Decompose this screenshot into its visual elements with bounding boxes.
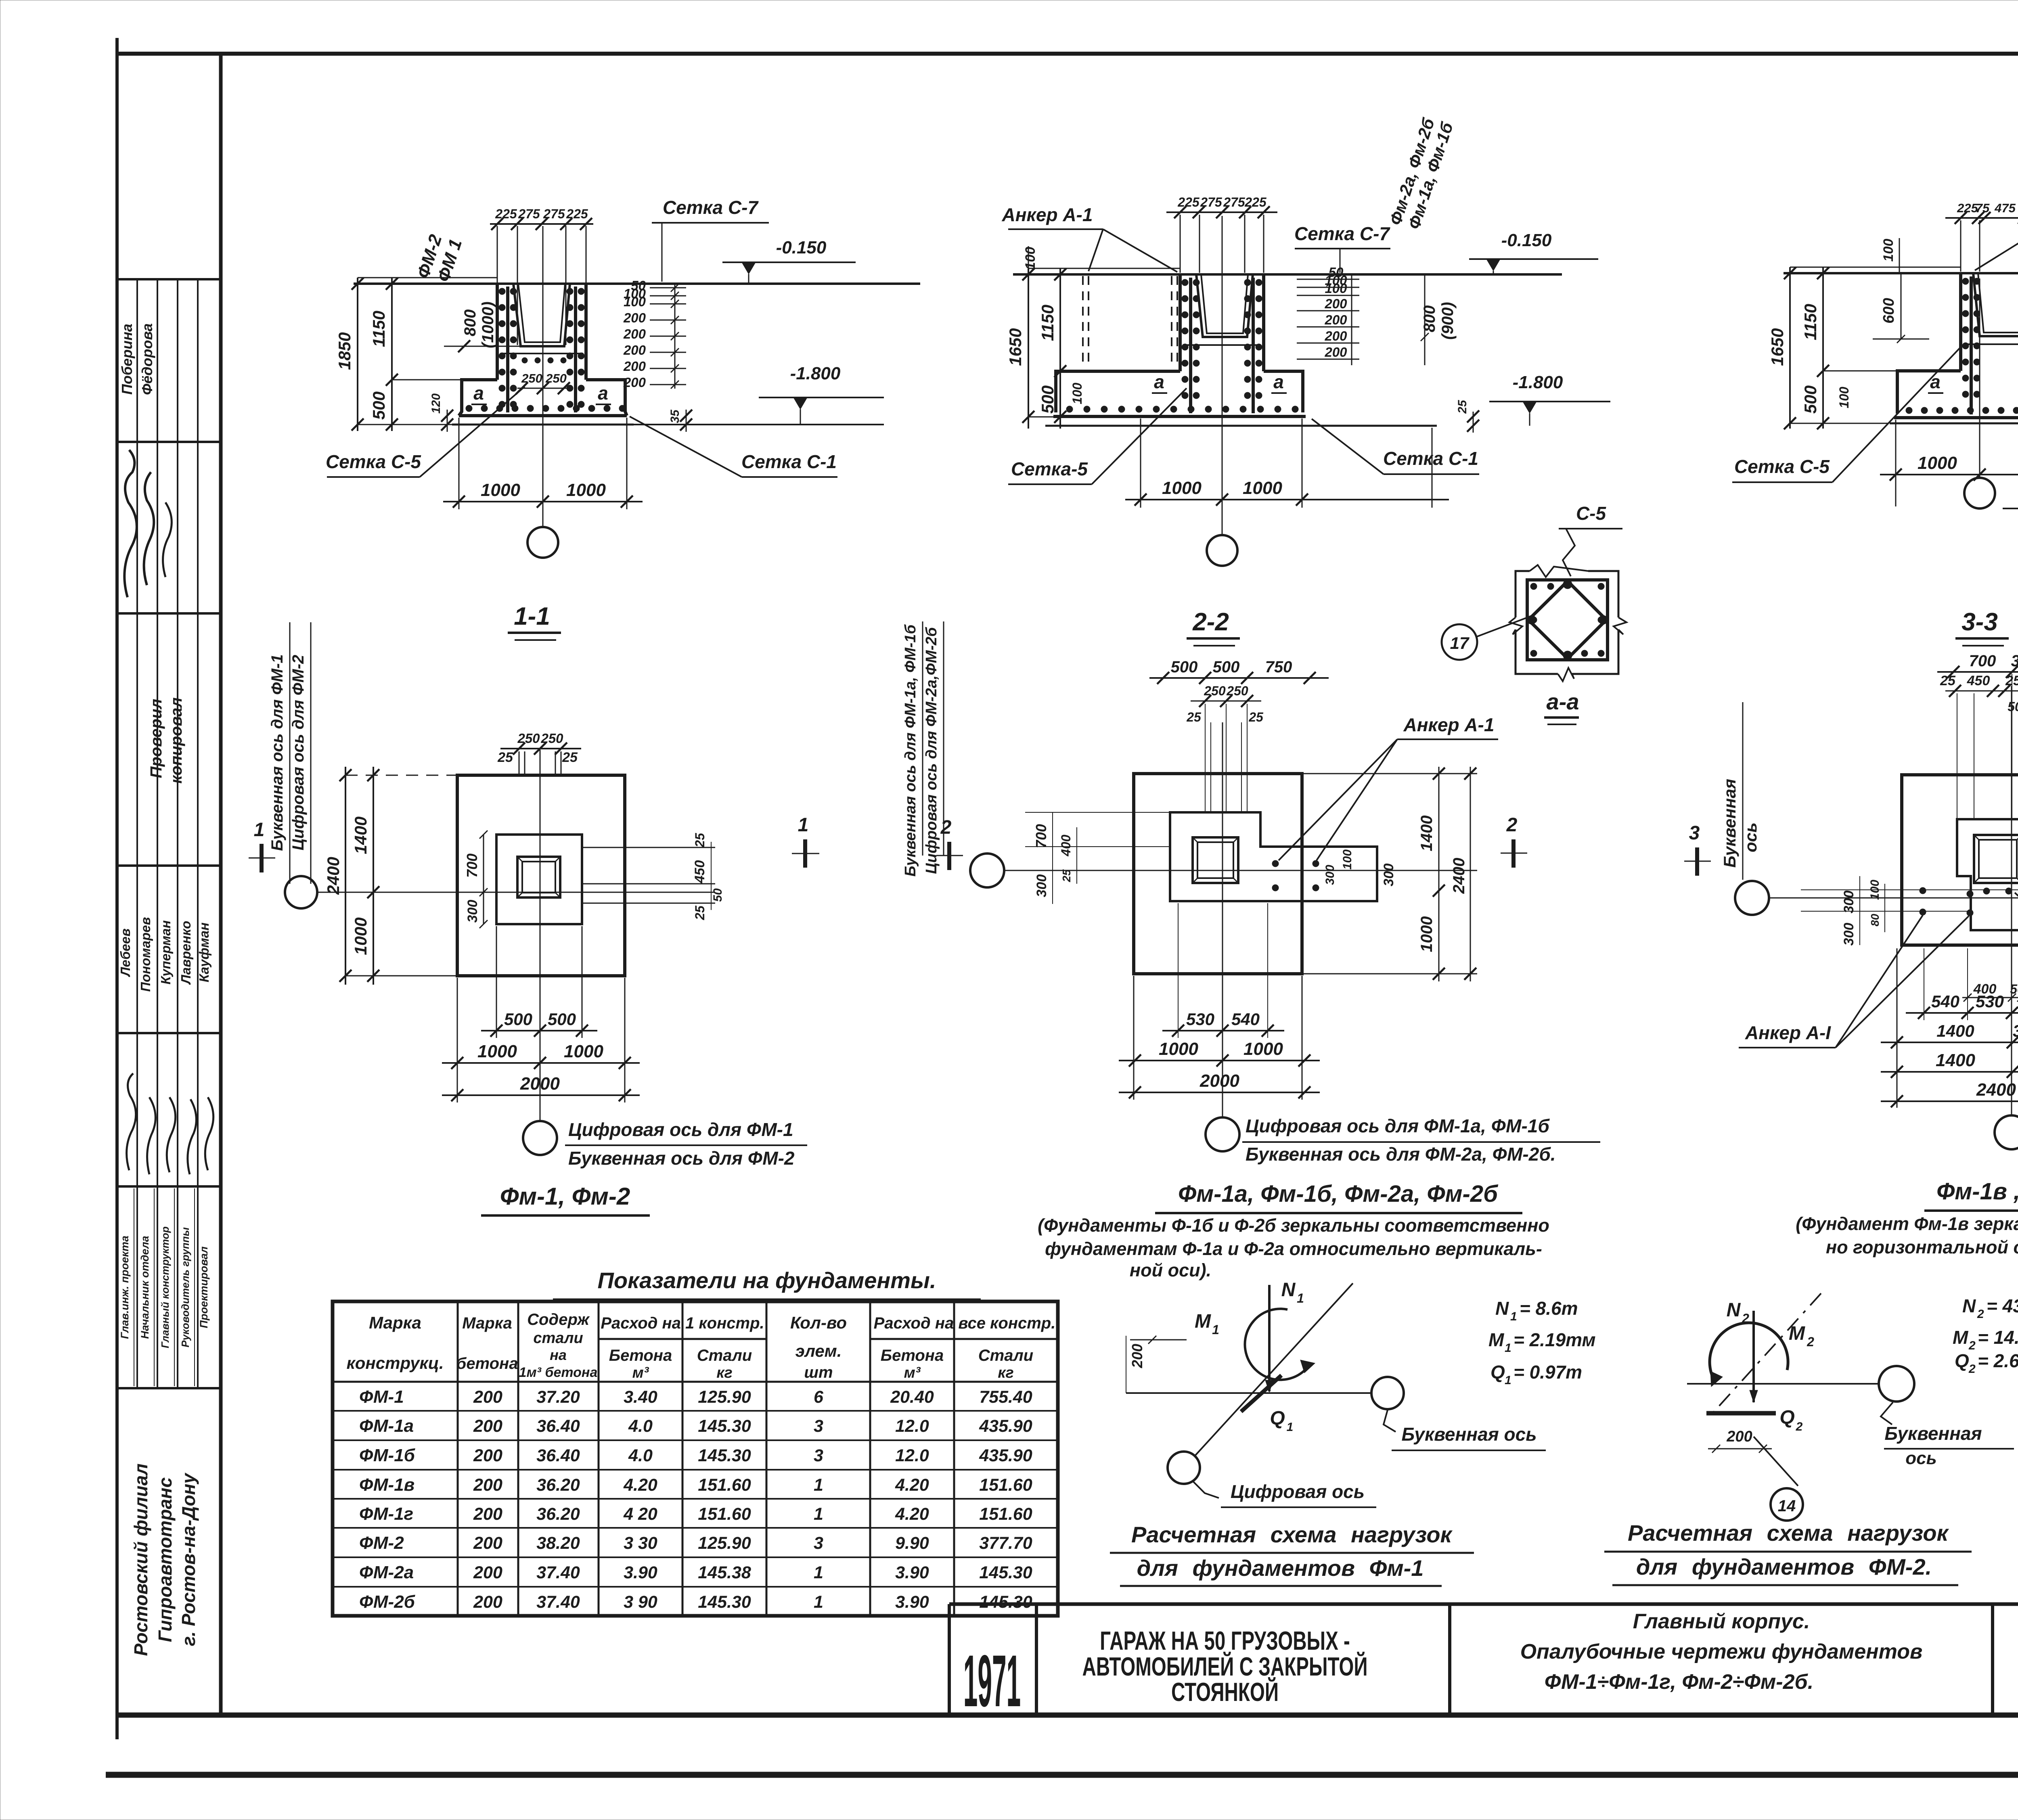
svg-text:100: 100 — [1023, 247, 1038, 270]
svg-text:4.20: 4.20 — [895, 1504, 929, 1524]
svg-text:3: 3 — [1689, 822, 1700, 844]
svg-text:N: N — [1281, 1279, 1296, 1301]
svg-text:540: 540 — [1931, 992, 1959, 1011]
svg-text:1000: 1000 — [566, 480, 606, 500]
svg-text:для фундаментов Фм-1: для фундаментов Фм-1 — [1137, 1555, 1424, 1581]
svg-text:300: 300 — [1323, 865, 1337, 885]
left height dimension chain 1650/1150/500 3-3 — [1789, 267, 1791, 429]
detail title a-a — [1544, 689, 1579, 724]
svg-text:N: N — [1495, 1298, 1509, 1319]
column socket double square FM-1v — [1974, 835, 2018, 883]
plan note FM-1a group — [1038, 1215, 1549, 1280]
svg-text:200: 200 — [473, 1475, 502, 1495]
svg-text:Анкер А-1: Анкер А-1 — [1002, 204, 1093, 225]
force N2 arrow and label — [1752, 1311, 1755, 1402]
table grid — [333, 1301, 1058, 1616]
svg-text:СТОЯНКОЙ: СТОЯНКОЙ — [1171, 1677, 1279, 1707]
svg-text:ГАРАЖ НА 50 ГРУЗОВЫХ -: ГАРАЖ НА 50 ГРУЗОВЫХ - — [1100, 1626, 1350, 1656]
svg-text:700: 700 — [464, 854, 480, 878]
svg-text:М: М — [1953, 1327, 1969, 1348]
svg-text:Сетка С-5: Сетка С-5 — [1734, 456, 1830, 477]
svg-text:ФМ-1: ФМ-1 — [359, 1387, 404, 1407]
svg-text:700: 700 — [1969, 652, 1996, 670]
svg-text:435.90: 435.90 — [979, 1416, 1032, 1436]
svg-text:1: 1 — [1297, 1291, 1304, 1305]
svg-text:Сетка С-1: Сетка С-1 — [741, 451, 837, 472]
vertical axis circle and label Tsifrovaya os 3-3 — [1979, 278, 1980, 478]
svg-text:4.20: 4.20 — [895, 1475, 929, 1495]
svg-text:Q: Q — [1955, 1350, 1969, 1371]
pedestal and socket outline 2-2 — [1179, 274, 1182, 371]
svg-text:500: 500 — [1213, 658, 1240, 676]
mesh spacing ladder 50..200 2-2 — [1297, 279, 1359, 280]
svg-text:копировал: копировал — [167, 697, 185, 784]
svg-text:25: 25 — [497, 750, 513, 765]
column socket double square FM-1a — [1193, 837, 1238, 883]
svg-text:Поберина: Поберина — [119, 324, 135, 395]
svg-text:1: 1 — [1510, 1310, 1517, 1323]
load scheme FM-2 values — [1953, 1295, 2018, 1376]
stamp signatures upper — [124, 450, 172, 597]
svg-text:1000: 1000 — [1418, 916, 1436, 952]
svg-text:36.20: 36.20 — [536, 1504, 580, 1524]
svg-text:Цифровая ось: Цифровая ось — [1231, 1481, 1365, 1502]
svg-text:200: 200 — [623, 359, 646, 374]
top dims 500/500/750 FM-1a — [1149, 677, 1329, 679]
svg-text:600: 600 — [1880, 298, 1897, 323]
svg-text:200: 200 — [473, 1446, 502, 1465]
svg-text:1000: 1000 — [1159, 1039, 1198, 1059]
stamp names Poberina/Fyodorova — [119, 323, 155, 395]
svg-text:2000: 2000 — [1199, 1071, 1239, 1091]
stamp label Proveril/Kopiroval — [147, 697, 185, 784]
svg-text:1000: 1000 — [481, 480, 520, 500]
svg-text:100: 100 — [1341, 849, 1354, 870]
svg-text:145.30: 145.30 — [979, 1563, 1032, 1582]
svg-text:(900): (900) — [1439, 302, 1457, 339]
svg-text:500: 500 — [1801, 385, 1820, 414]
svg-text:300: 300 — [1841, 891, 1857, 914]
svg-text:ной оси).: ной оси). — [1130, 1260, 1211, 1280]
svg-text:М: М — [1488, 1329, 1505, 1350]
svg-text:а: а — [1154, 371, 1164, 392]
L-shaped pedestal with console FM-1a — [1170, 812, 1377, 901]
svg-text:а: а — [598, 383, 608, 404]
svg-text:300: 300 — [1034, 874, 1049, 897]
svg-text:Фёдорова: Фёдорова — [139, 323, 155, 395]
svg-text:Сетка С-1: Сетка С-1 — [1383, 448, 1478, 469]
svg-text:шт: шт — [804, 1364, 833, 1381]
load scheme FM-1 diagram — [1126, 1279, 1546, 1507]
svg-text:Главный конструктор: Главный конструктор — [159, 1226, 171, 1348]
svg-text:25: 25 — [693, 905, 707, 920]
svg-text:Содерж: Содерж — [527, 1311, 590, 1328]
svg-text:25: 25 — [1060, 869, 1073, 883]
svg-text:Цифровая ось для ФМ-2а,ФМ-2б: Цифровая ось для ФМ-2а,ФМ-2б — [923, 627, 940, 874]
svg-text:Q: Q — [1779, 1407, 1794, 1428]
svg-text:1: 1 — [1505, 1374, 1511, 1387]
axis lines and grid circles FM-1v — [1769, 897, 2018, 899]
svg-text:250: 250 — [517, 731, 540, 746]
svg-text:ФМ-2а: ФМ-2а — [359, 1563, 414, 1582]
svg-text:(Фундамент Фм-1в зеркален Ф: (Фундамент Фм-1в зеркален Фм-1г относите… — [1796, 1213, 2018, 1234]
svg-text:200: 200 — [473, 1504, 502, 1524]
svg-text:750: 750 — [1265, 658, 1292, 676]
svg-text:200: 200 — [1324, 312, 1347, 327]
table title — [553, 1268, 981, 1299]
svg-text:755.40: 755.40 — [979, 1387, 1032, 1407]
svg-text:(Фундаменты Ф-1б и Ф-2б зе: (Фундаменты Ф-1б и Ф-2б зеркальны соотве… — [1038, 1215, 1549, 1236]
svg-text:151.60: 151.60 — [979, 1504, 1032, 1524]
svg-text:3.40: 3.40 — [624, 1387, 657, 1407]
section title 3-3 — [1955, 608, 2009, 646]
table data rows — [359, 1387, 1032, 1612]
svg-text:Сетка С-7: Сетка С-7 — [663, 197, 759, 218]
svg-text:3-3: 3-3 — [1961, 608, 1998, 636]
svg-text:225: 225 — [495, 207, 517, 221]
svg-text:Анкер А-I: Анкер А-I — [1745, 1022, 1831, 1043]
stamp job titles — [119, 1188, 210, 1386]
svg-text:100: 100 — [1881, 239, 1896, 262]
svg-text:= 2.67т: = 2.67т — [1978, 1350, 2018, 1371]
svg-text:200: 200 — [1726, 1428, 1752, 1445]
vertical axis and grid circle 1-1 — [542, 226, 544, 527]
svg-text:1650: 1650 — [1768, 328, 1787, 366]
svg-text:500: 500 — [369, 391, 388, 420]
svg-text:Буквенная ось: Буквенная ось — [1401, 1424, 1537, 1445]
svg-text:бетона: бетона — [456, 1355, 518, 1372]
svg-text:80: 80 — [1869, 914, 1881, 927]
svg-text:300: 300 — [1381, 864, 1396, 887]
svg-text:1000: 1000 — [1243, 478, 1282, 498]
svg-text:4 20: 4 20 — [623, 1504, 657, 1524]
load scheme FM-2 diagram — [1687, 1293, 2014, 1521]
svg-text:ФМ-1÷Фм-1г, Фм-2÷Фм-2б.: ФМ-1÷Фм-1г, Фм-2÷Фм-2б. — [1545, 1670, 1813, 1694]
axis lines and grid circles FM-1 — [317, 892, 715, 893]
svg-text:1150: 1150 — [1038, 305, 1057, 341]
svg-text:530: 530 — [1186, 1010, 1214, 1029]
vertical axis and grid circle 2-2 — [1222, 216, 1223, 535]
pedestal stem outline 1-1 — [496, 284, 499, 380]
svg-text:200: 200 — [623, 310, 646, 325]
footing plan outline FM-1a — [1134, 774, 1302, 974]
svg-text:(1000): (1000) — [479, 301, 497, 348]
right dimension chain 1400/2400/1000 FM-1a — [1438, 767, 1440, 981]
svg-text:3 90: 3 90 — [624, 1592, 657, 1612]
svg-text:1000: 1000 — [351, 917, 370, 955]
svg-text:151.60: 151.60 — [698, 1475, 751, 1495]
svg-text:2: 2 — [1968, 1362, 1976, 1376]
svg-text:225: 225 — [566, 207, 588, 221]
left height dimension chain 1850/1150/500 — [357, 278, 358, 431]
svg-text:ФМ-2б: ФМ-2б — [359, 1592, 416, 1612]
axis label of load scheme FM-2 — [1881, 1402, 1893, 1425]
svg-text:4.20: 4.20 — [623, 1475, 657, 1495]
svg-text:1000: 1000 — [1162, 478, 1202, 498]
svg-text:6: 6 — [814, 1387, 824, 1407]
svg-text:-0.150: -0.150 — [776, 238, 827, 257]
svg-text:фундаментам Ф-1а и Ф-2а отн: фундаментам Ф-1а и Ф-2а относительно вер… — [1045, 1238, 1542, 1259]
svg-text:151.60: 151.60 — [698, 1504, 751, 1524]
svg-text:Руководитель группы: Руководитель группы — [179, 1227, 191, 1347]
svg-text:20.40: 20.40 — [890, 1387, 934, 1407]
bottom dimension 1000+1000 1-1 — [458, 418, 460, 509]
svg-text:700: 700 — [1033, 824, 1049, 848]
axis lines of load scheme FM-1 — [1195, 1283, 1353, 1455]
svg-text:а-а: а-а — [1547, 689, 1579, 714]
svg-text:4.0: 4.0 — [628, 1416, 653, 1436]
svg-text:25: 25 — [693, 833, 707, 848]
svg-text:1: 1 — [1287, 1420, 1294, 1434]
section title 2-2 — [1187, 608, 1240, 646]
svg-text:М: М — [1195, 1311, 1211, 1332]
svg-text:50: 50 — [711, 888, 724, 902]
shear Q1 vector — [1241, 1375, 1281, 1412]
svg-text:а: а — [473, 383, 484, 404]
right extension lines with dims 25/450/50 FM-1 — [582, 847, 715, 848]
svg-text:Цифровая ось для ФМ-2: Цифровая ось для ФМ-2 — [289, 655, 307, 851]
svg-text:500: 500 — [1171, 658, 1198, 676]
svg-text:1000: 1000 — [477, 1042, 517, 1061]
svg-text:1: 1 — [814, 1563, 823, 1582]
svg-text:145.30: 145.30 — [698, 1592, 751, 1612]
svg-text:Сетка С-7: Сетка С-7 — [1294, 223, 1390, 244]
svg-text:М: М — [1789, 1323, 1805, 1344]
svg-text:= 2.19тм: = 2.19тм — [1513, 1329, 1596, 1350]
svg-text:ФМ-1а: ФМ-1а — [359, 1416, 414, 1436]
svg-text:Опалубочные чертежи фундам: Опалубочные чертежи фундаментов — [1520, 1640, 1923, 1663]
svg-text:1: 1 — [814, 1592, 823, 1612]
svg-text:9.90: 9.90 — [895, 1533, 929, 1553]
svg-text:145.38: 145.38 — [698, 1563, 751, 1582]
table header — [346, 1311, 1055, 1381]
svg-text:Лавренко: Лавренко — [178, 921, 193, 985]
svg-text:250: 250 — [1204, 684, 1226, 698]
svg-text:450: 450 — [1967, 673, 1990, 688]
svg-text:Расход на все констр.: Расход на все констр. — [874, 1314, 1056, 1332]
svg-text:151.60: 151.60 — [979, 1475, 1032, 1495]
plan axis labels FM-1 FM-2 — [565, 1119, 807, 1169]
L-shaped pedestal FM-1v — [1957, 819, 2018, 930]
load scheme FM-1 caption — [1110, 1522, 1474, 1586]
svg-text:1000: 1000 — [564, 1042, 603, 1061]
svg-text:1: 1 — [814, 1475, 823, 1495]
svg-text:2: 2 — [940, 817, 952, 838]
bottom sheet edge line — [106, 1772, 2018, 1778]
svg-text:1000: 1000 — [1918, 453, 1957, 473]
svg-text:= 14.13пм: = 14.13пм — [1978, 1327, 2018, 1348]
plan axis labels FM-1a group — [1242, 1115, 1600, 1165]
svg-text:400: 400 — [1059, 835, 1073, 857]
footing outline with left console 2-2 — [1056, 371, 1180, 412]
svg-text:Начальник отдела: Начальник отдела — [139, 1236, 151, 1339]
svg-text:Стали: Стали — [978, 1347, 1034, 1364]
svg-text:37.20: 37.20 — [536, 1387, 580, 1407]
plan view FM-1a FM-1b FM-2a FM-2b — [902, 621, 1527, 1151]
axis lines and grid circles FM-1a — [1004, 870, 1477, 871]
anchor rows lines and dots FM-1v — [1801, 889, 2018, 890]
svg-text:3.90: 3.90 — [895, 1592, 929, 1612]
svg-text:145.30: 145.30 — [979, 1592, 1032, 1612]
svg-text:Q: Q — [1490, 1362, 1505, 1383]
svg-text:100: 100 — [1070, 383, 1084, 404]
svg-text:кг: кг — [716, 1364, 733, 1381]
svg-text:-0.150: -0.150 — [1501, 230, 1552, 250]
svg-text:500: 500 — [1038, 385, 1057, 414]
plan note FM-1v FM-1g — [1796, 1213, 2018, 1257]
svg-text:Марка: Марка — [369, 1313, 421, 1332]
svg-text:125.90: 125.90 — [698, 1533, 751, 1553]
svg-text:Кол-во: Кол-во — [790, 1313, 847, 1332]
svg-text:Стали: Стали — [697, 1347, 752, 1364]
plan view FM-1 FM-2 — [249, 622, 819, 1155]
svg-text:Главный корпус.: Главный корпус. — [1633, 1610, 1810, 1633]
svg-text:1971: 1971 — [963, 1640, 1021, 1722]
svg-text:2: 2 — [1807, 1335, 1814, 1349]
svg-text:3 30: 3 30 — [624, 1533, 657, 1553]
svg-text:Фм-1, Фм-2: Фм-1, Фм-2 — [500, 1183, 630, 1210]
svg-text:200: 200 — [623, 343, 646, 358]
title block year 1971 — [963, 1640, 1021, 1722]
pedestal and socket outline 3-3 — [1959, 273, 1962, 371]
svg-text:Кауфман: Кауфман — [197, 923, 211, 983]
svg-text:3: 3 — [814, 1416, 823, 1436]
dimension chain 225/275/275/225 top of 2-2 — [1166, 211, 1277, 213]
svg-text:500: 500 — [504, 1010, 532, 1029]
eccentricity dim 200 FM-2 — [1708, 1448, 1772, 1450]
reinforcement bars and mesh dots 3-3 — [1970, 276, 1973, 414]
small dims 35 and 120 1-1 — [686, 410, 687, 432]
svg-text:200: 200 — [623, 375, 646, 390]
svg-text:36.20: 36.20 — [536, 1475, 580, 1495]
svg-text:75: 75 — [1976, 201, 1990, 215]
svg-text:Буквенная: Буквенная — [1720, 779, 1739, 868]
svg-text:для фундаментов ФМ-2.: для фундаментов ФМ-2. — [1636, 1554, 1932, 1579]
svg-text:300: 300 — [2011, 652, 2018, 670]
svg-text:800: 800 — [461, 310, 479, 337]
bottom dimension chains 530/540/1000/2000 FM-1a — [1178, 903, 1179, 1038]
svg-text:145.30: 145.30 — [698, 1446, 751, 1465]
svg-text:450: 450 — [692, 860, 708, 884]
svg-text:С-5: С-5 — [1576, 503, 1607, 524]
title block project name — [1082, 1626, 1368, 1707]
svg-text:200: 200 — [1129, 1344, 1145, 1368]
svg-text:200: 200 — [623, 326, 646, 341]
footing outline with right console 3-3 — [1897, 371, 1961, 414]
section view 1-1 — [326, 197, 920, 558]
svg-text:Глав.инж. проекта: Глав.инж. проекта — [119, 1236, 131, 1339]
svg-text:200: 200 — [473, 1387, 502, 1407]
svg-text:300: 300 — [465, 900, 480, 923]
svg-text:Цифровая ось для ФМ-1: Цифровая ось для ФМ-1 — [568, 1119, 793, 1140]
svg-text:125.90: 125.90 — [698, 1387, 751, 1407]
svg-text:Анкер А-1: Анкер А-1 — [1403, 714, 1495, 735]
svg-text:стали: стали — [533, 1330, 583, 1347]
detail a-a — [1442, 503, 1627, 681]
svg-text:225: 225 — [1177, 195, 1200, 209]
svg-text:250: 250 — [540, 731, 563, 746]
svg-text:275: 275 — [1223, 195, 1246, 209]
svg-text:300: 300 — [2013, 1021, 2018, 1040]
svg-text:25: 25 — [1456, 400, 1469, 414]
svg-text:но горизонтальной оси).: но горизонтальной оси). — [1826, 1237, 2018, 1257]
svg-text:120: 120 — [429, 393, 443, 414]
stirrup square and diamond tie a-a — [1527, 580, 1608, 660]
footing plan outline FM-1v — [1902, 775, 2018, 945]
svg-text:100: 100 — [624, 294, 646, 309]
pedestal step outline FM-1 — [496, 835, 582, 924]
dashed anchor bolts A-1 2-2 — [1082, 276, 1084, 365]
svg-text:м³: м³ — [632, 1364, 649, 1381]
svg-text:475: 475 — [1994, 201, 2016, 215]
svg-text:Буквенная ось для ФМ-1а, ФМ-1б: Буквенная ось для ФМ-1а, ФМ-1б — [902, 624, 919, 877]
svg-text:1: 1 — [814, 1504, 823, 1524]
svg-text:3: 3 — [814, 1533, 823, 1553]
svg-text:Буквенная ось для ФМ-2: Буквенная ось для ФМ-2 — [568, 1148, 795, 1169]
stamp names list — [118, 917, 211, 992]
plan title FM-1a group — [1155, 1181, 1522, 1213]
svg-text:250: 250 — [545, 371, 567, 385]
svg-text:Фм-1в , Фм-1г: Фм-1в , Фм-1г — [1936, 1178, 2018, 1205]
svg-text:200: 200 — [1324, 345, 1347, 360]
svg-text:Пономарев: Пономарев — [138, 917, 153, 992]
plan view FM-1v FM-1g — [1684, 652, 2018, 1149]
svg-text:Ростовский филиал: Ростовский филиал — [130, 1464, 151, 1656]
svg-text:Показатели на фундаменты.: Показатели на фундаменты. — [598, 1268, 936, 1293]
bottom dimension chains 500/1000/2000 FM-1 — [496, 926, 497, 1038]
svg-text:3: 3 — [814, 1446, 823, 1465]
svg-text:225: 225 — [1957, 201, 1978, 215]
svg-text:Бетона: Бетона — [609, 1347, 672, 1364]
svg-text:1000: 1000 — [1243, 1039, 1283, 1059]
anchor bolts A-1 dots and label FM-1a — [1272, 860, 1279, 867]
svg-text:конструкц.: конструкц. — [346, 1353, 444, 1372]
svg-text:37.40: 37.40 — [536, 1563, 580, 1582]
footing plan outline FM-1 — [457, 775, 625, 976]
svg-text:36.40: 36.40 — [536, 1446, 580, 1465]
left stamp strip grid — [117, 279, 221, 1388]
svg-text:377.70: 377.70 — [979, 1533, 1032, 1553]
svg-text:Лебеев: Лебеев — [118, 929, 133, 977]
column outline with break marks a-a — [1516, 571, 1530, 617]
section view 3-3 — [1732, 164, 2018, 533]
svg-text:= 43.6т: = 43.6т — [1987, 1295, 2018, 1316]
svg-text:200: 200 — [473, 1416, 502, 1436]
svg-text:300: 300 — [1841, 923, 1857, 946]
axis labels of load scheme FM-1 — [1384, 1410, 1396, 1432]
dashed extension line FM-1 — [345, 775, 457, 776]
svg-text:Буквенная ось для ФМ-2а, ФМ: Буквенная ось для ФМ-2а, ФМ-2б. — [1246, 1144, 1556, 1165]
svg-text:Сетка-5: Сетка-5 — [1011, 458, 1088, 479]
svg-text:-1.800: -1.800 — [1513, 372, 1563, 392]
svg-text:Буквенная: Буквенная — [1884, 1423, 1982, 1444]
svg-text:1150: 1150 — [369, 311, 388, 347]
svg-text:Расчетная схема нагрузок: Расчетная схема нагрузок — [1628, 1520, 1949, 1546]
svg-text:12.0: 12.0 — [895, 1416, 929, 1436]
position balloon 17 with leader — [1442, 624, 1477, 660]
reinforcement bars and mesh dots 1-1 — [506, 287, 509, 412]
svg-text:275: 275 — [518, 207, 540, 221]
svg-text:145.30: 145.30 — [698, 1416, 751, 1436]
section cut marks 2-2 — [947, 842, 951, 870]
svg-text:1: 1 — [798, 814, 809, 836]
svg-text:-1.800: -1.800 — [790, 364, 841, 383]
stamp organization — [130, 1464, 199, 1656]
left dimension chain 2400/1400/1000 FM-1 — [345, 767, 346, 985]
section cut marks 1-1 — [260, 844, 264, 872]
svg-text:Фм-1а, Фм-1б, Фм-2а, Фм-2б: Фм-1а, Фм-1б, Фм-2а, Фм-2б — [1178, 1181, 1499, 1207]
svg-text:ФМ-1г: ФМ-1г — [359, 1504, 413, 1524]
